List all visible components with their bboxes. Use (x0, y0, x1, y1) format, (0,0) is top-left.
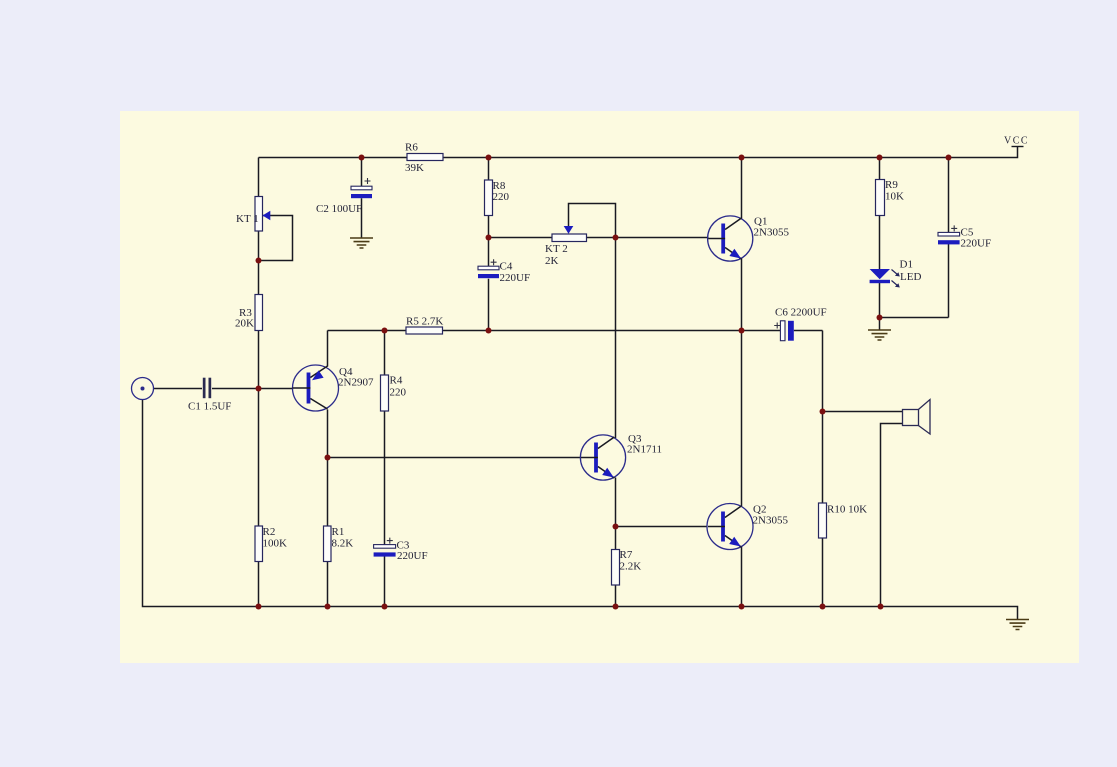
svg-text:C2 100UF: C2 100UF (316, 203, 362, 215)
svg-text:2K: 2K (545, 255, 559, 267)
svg-text:R1: R1 (332, 526, 345, 538)
svg-text:R4: R4 (390, 375, 403, 387)
svg-text:VCC: VCC (1004, 136, 1029, 147)
svg-text:2N2907: 2N2907 (338, 377, 374, 389)
svg-text:R7: R7 (620, 549, 633, 561)
svg-text:220: 220 (493, 191, 510, 203)
svg-text:D1: D1 (900, 259, 913, 271)
svg-text:2N3055: 2N3055 (753, 515, 789, 527)
svg-text:R9: R9 (885, 179, 898, 191)
svg-text:KT 2: KT 2 (545, 243, 568, 255)
svg-text:R10 10K: R10 10K (827, 504, 867, 516)
svg-text:2N1711: 2N1711 (627, 444, 662, 456)
svg-text:C4: C4 (500, 261, 513, 273)
svg-text:2N3055: 2N3055 (754, 227, 790, 239)
svg-text:220UF: 220UF (397, 550, 428, 562)
svg-text:C1 1.5UF: C1 1.5UF (188, 401, 231, 413)
svg-text:220: 220 (390, 387, 407, 399)
svg-text:8.2K: 8.2K (332, 538, 354, 550)
svg-text:100K: 100K (263, 538, 288, 550)
svg-text:R6: R6 (405, 142, 418, 154)
svg-text:220UF: 220UF (500, 272, 531, 284)
svg-text:LED: LED (900, 271, 921, 283)
svg-text:R2: R2 (263, 526, 276, 538)
svg-text:20K: 20K (235, 318, 254, 330)
svg-text:10K: 10K (885, 191, 904, 203)
svg-text:220UF: 220UF (961, 238, 992, 250)
svg-text:KT 1: KT 1 (236, 213, 259, 225)
svg-text:2.2K: 2.2K (620, 561, 642, 573)
svg-text:C6 2200UF: C6 2200UF (775, 307, 827, 319)
svg-text:39K: 39K (405, 162, 424, 174)
svg-text:R5 2.7K: R5 2.7K (406, 316, 443, 328)
